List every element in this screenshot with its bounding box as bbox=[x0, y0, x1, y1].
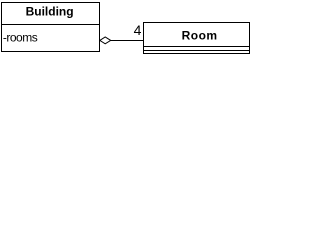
class Building box bbox=[2, 3, 100, 52]
attribute -rooms bbox=[3, 31, 38, 45]
class Room box bbox=[144, 23, 250, 54]
svg-text:Room: Room bbox=[182, 29, 218, 43]
aggregation diamond bbox=[100, 37, 111, 44]
Room title text bbox=[182, 29, 218, 43]
svg-text:Building: Building bbox=[26, 5, 74, 19]
multiplicity label 4 bbox=[134, 22, 142, 38]
Room separator 1 bbox=[144, 46, 250, 48]
Room separator 2 bbox=[144, 50, 250, 52]
wire bbox=[111, 40, 144, 42]
Building title text bbox=[26, 5, 74, 19]
svg-text:4: 4 bbox=[134, 22, 142, 38]
Building title separator bbox=[1, 24, 100, 26]
svg-text:-rooms: -rooms bbox=[3, 31, 38, 45]
